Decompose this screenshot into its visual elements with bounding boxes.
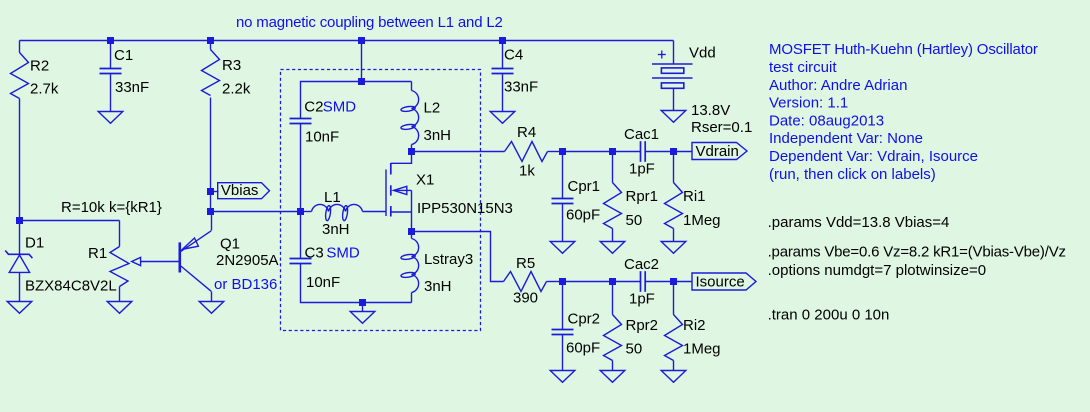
svg-text:R3: R3 [222,57,241,74]
ground tank [350,312,375,324]
wire supply drop to tank [361,41,363,82]
capacitor C2 [290,119,312,124]
resistor Ri1 [665,183,683,229]
junction L2 top node [358,78,365,85]
svg-text:Rpr1: Rpr1 [626,188,659,205]
svg-text:Lstray3: Lstray3 [424,251,473,268]
svg-text:Date: 08aug2013: Date: 08aug2013 [769,112,884,129]
wire C1 top lead [110,41,112,69]
junction tank drop [358,37,365,44]
wire Cpr2 bottom lead [562,335,564,371]
ground under D1 [7,302,32,314]
svg-text:X1: X1 [416,171,434,188]
zener diode D1 [5,251,32,273]
net flag Isource [692,273,756,290]
wire Lstray3 bottom lead [411,293,413,303]
svg-text:C3: C3 [305,244,324,261]
svg-text:2.2k: 2.2k [222,80,251,97]
wire L2 top lead [411,82,413,91]
svg-text:1Meg: 1Meg [683,340,721,357]
wire Ri1 bottom lead [673,229,675,242]
svg-text:Q1: Q1 [220,235,240,252]
wire Vdd top lead [673,41,675,65]
ground under Q1 [199,302,224,314]
wire C2 top to L2 top [301,82,412,119]
capacitor Cpr2 [552,330,574,335]
MOSFET X1 drain leg [391,151,412,163]
svg-text:10nF: 10nF [305,129,339,146]
wire node to Cac2 [563,281,641,283]
wire Lstray3 top lead [411,232,413,239]
wire Q1 collector lead [211,292,213,302]
capacitor Cac1 [641,141,646,162]
svg-text:3nH: 3nH [424,127,452,144]
resistor Rpr1 [604,183,622,229]
wire node to R1 top [20,220,120,222]
svg-text:or BD136: or BD136 [214,276,277,293]
svg-text:60pF: 60pF [566,206,600,223]
svg-text:test circuit: test circuit [769,59,837,76]
wire drain to R4 [412,151,505,153]
voltage source Vdd plus sign [658,51,666,59]
svg-text:BZX84C8V2L: BZX84C8V2L [25,277,117,294]
svg-text:SMD: SMD [326,244,360,261]
capacitor Cac2 [641,271,646,292]
svg-text:L1: L1 [324,189,341,206]
svg-text:D1: D1 [25,234,44,251]
wire Cac1 to Vdrain flag [646,151,693,153]
resistor Rpr2 [604,315,622,361]
wire L1 left lead [301,211,312,213]
capacitor C4 [492,69,514,74]
inductor Lstray3 [401,239,419,293]
svg-text:1Meg: 1Meg [683,212,721,229]
ground under Cpr2 [550,371,575,383]
svg-text:Vdd: Vdd [689,45,716,62]
wire top supply rail [20,40,674,42]
ground under Cpr1 [550,242,575,254]
wire C4 bottom lead [502,74,504,112]
voltage source Vdd battery plates [652,64,693,88]
transistor Q1 emitter [181,231,211,252]
svg-text:(run, then click on labels): (run, then click on labels) [769,166,936,183]
wire R1 wiper to Q1 base [141,261,180,263]
wire R1 top lead [119,221,121,247]
svg-text:.params Vbe=0.6 Vz=8.2 kR1=(Vb: .params Vbe=0.6 Vz=8.2 kR1=(Vbias-Vbe)/V… [768,244,1066,261]
wire tank ground stub [362,303,364,312]
svg-text:SMD: SMD [323,99,357,116]
wire Q1 emitter lead [211,212,213,231]
wire C4 top lead [502,41,504,69]
transistor Q1 collector [181,266,211,291]
ground under Rpr2 [600,371,625,383]
svg-text:Ri2: Ri2 [683,317,706,334]
junction tank ground node [359,299,366,306]
svg-text:Rpr2: Rpr2 [626,317,659,334]
capacitor C1 [100,69,122,74]
wire R4 to node [548,151,563,153]
wire Cpr1 bottom lead [562,204,564,242]
svg-text:33nF: 33nF [504,78,538,95]
MOSFET X1 channel segments [390,163,392,217]
capacitor C3 [290,259,312,264]
wire Cpr1 top lead [562,152,564,199]
junction Rpr1 node [609,148,616,155]
wire Rpr1 top lead [612,152,614,183]
svg-text:R1: R1 [88,245,107,262]
resistor R4 [505,142,548,162]
wire L2 bottom lead [411,145,413,152]
svg-text:1k: 1k [519,163,535,180]
net flag Vdrain [692,143,747,160]
svg-text:Isource: Isource [696,274,745,291]
wire Vbias stub [211,191,219,193]
svg-text:60pF: 60pF [566,340,600,357]
wire D1 cathode lead [19,221,21,255]
svg-text:1pF: 1pF [629,160,655,177]
wire C1 bottom lead [110,74,112,112]
wire L1 to gate [363,211,387,213]
svg-text:R2: R2 [30,58,49,75]
svg-text:Dependent Var: Vdrain, Isource: Dependent Var: Vdrain, Isource [769,148,978,165]
capacitor Cpr1 [552,199,574,204]
R1 wiper arrow [132,257,141,265]
svg-text:Vbias: Vbias [221,182,259,199]
junction tank node [297,208,304,215]
svg-text:no magnetic coupling between L: no magnetic coupling between L1 and L2 [236,14,503,31]
junction D1 node [16,217,23,224]
svg-text:50: 50 [626,212,643,229]
wire Ri1 top lead [673,152,675,183]
svg-text:C1: C1 [114,47,133,64]
ground under R1 [107,302,132,314]
svg-text:Ri1: Ri1 [683,188,706,205]
ground under Ri2 [661,371,686,383]
ground under Rpr1 [600,242,625,254]
svg-text:R5: R5 [516,255,535,272]
wire Rpr2 top lead [612,282,614,315]
wire R2 to node D1 [19,99,21,221]
svg-text:2N2905A: 2N2905A [216,252,279,269]
inductor L2 [401,91,419,145]
MOSFET X1 source vertical [411,190,413,231]
svg-text:R=10k k={kR1}: R=10k k={kR1} [61,199,162,216]
ground under Vdd [661,111,686,123]
svg-text:2.7k: 2.7k [30,80,59,97]
wire R3 top lead [210,41,212,50]
svg-text:IPP530N15N3: IPP530N15N3 [417,200,513,217]
junction drain node [408,148,415,155]
junction Cpr2 node [559,278,566,285]
junction Vbias node [207,188,214,195]
wire C3 top lead [300,212,302,259]
svg-text:Rser=0.1: Rser=0.1 [691,119,752,136]
svg-text:Vdrain: Vdrain [696,143,739,160]
wire Cac2 to Isource flag [646,281,693,283]
svg-text:Cac1: Cac1 [624,126,659,143]
svg-text:Independent Var: None: Independent Var: None [769,130,923,147]
junction C4 top [499,37,506,44]
wire D1 anode lead [19,273,21,302]
junction emitter node [207,208,214,215]
MOSFET X1 bulk arrow [394,186,412,194]
svg-text:R4: R4 [517,124,536,141]
ground under C4 [490,112,515,124]
wire Vdd bottom lead [673,89,675,111]
transistor Q1 emitter arrow [182,238,198,249]
wire R5 to node [547,281,563,283]
wire emitter node to tank node [211,211,301,213]
wire R3 bottom to emitter node [210,98,212,212]
wire Rpr1 bottom lead [612,229,614,242]
svg-text:Version: 1.1: Version: 1.1 [769,95,848,112]
svg-text:Cac2: Cac2 [624,256,659,273]
svg-text:3nH: 3nH [424,278,452,295]
svg-text:MOSFET Huth-Kuehn (Hartley) Os: MOSFET Huth-Kuehn (Hartley) Oscillator [769,41,1038,58]
wire Ri2 bottom lead [673,361,675,371]
MOSFET X1 gate bar [385,170,387,217]
svg-text:.params Vdd=13.8 Vbias=4: .params Vdd=13.8 Vbias=4 [768,214,950,231]
resistor R5 [504,272,547,292]
junction Isource node [670,278,677,285]
svg-text:C2: C2 [304,99,323,116]
svg-text:C4: C4 [504,46,523,63]
svg-text:L2: L2 [424,99,441,116]
wire C3 bottom rail [301,264,412,303]
svg-text:Cpr1: Cpr1 [568,178,601,195]
svg-text:3nH: 3nH [322,221,350,238]
svg-text:1pF: 1pF [629,290,655,307]
svg-text:390: 390 [513,289,538,306]
svg-text:Cpr2: Cpr2 [568,310,601,327]
svg-text:13.8V: 13.8V [691,102,730,119]
ground under Ri1 [661,242,686,254]
svg-text:33nF: 33nF [115,79,149,96]
junction source node [408,228,415,235]
net flag Vbias [218,183,270,199]
svg-text:.tran 0 200u 0 10n: .tran 0 200u 0 10n [768,307,890,324]
resistor R3 [202,50,220,96]
junction C1 top [107,37,114,44]
svg-text:.options numdgt=7 plotwinsize=: .options numdgt=7 plotwinsize=0 [768,262,986,279]
svg-text:10nF: 10nF [306,274,340,291]
resistor R1 (potentiometer) [110,247,129,287]
wire source to R5 [412,232,504,282]
svg-text:Author: Andre Adrian: Author: Andre Adrian [769,77,907,94]
dashed boundary box (no coupling region) [281,70,481,331]
junction Cpr1 node [559,148,566,155]
inductor L1 [312,204,363,221]
wire Rpr2 bottom lead [612,361,614,371]
transistor Q1 base bar [179,242,182,272]
wire R1 bottom lead [119,287,121,302]
wire Ri2 top lead [673,282,675,315]
resistor Ri2 [665,315,683,361]
wire node to Cac1 [563,151,641,153]
wire R2 top lead [19,41,21,53]
junction R3 top [207,37,214,44]
wire C2 bottom lead [300,124,302,212]
junction Vdrain node [670,148,677,155]
MOSFET X1 source leg [391,211,412,213]
wire Cpr2 top lead [562,282,564,330]
junction Rpr2 node [609,278,616,285]
resistor R2 [11,53,29,99]
ground under C1 [98,112,123,124]
svg-text:50: 50 [626,340,643,357]
